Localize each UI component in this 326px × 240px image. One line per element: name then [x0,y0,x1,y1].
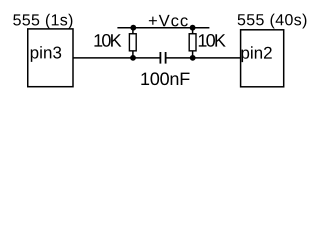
junction dot R1 top [130,25,136,31]
+Vcc rail [117,27,209,29]
capacitor C1 plate right [165,52,167,64]
junction dot R2 top [190,25,196,31]
label 555 (40s) [238,14,307,29]
value label 10K (right) [199,34,226,47]
junction dot R2 bottom [190,55,196,61]
resistor R2 body [189,34,196,51]
pin label pin3 [31,46,61,62]
wire capacitor to pin2 [166,57,240,59]
resistor R1 leads [132,28,134,34]
value label 100nF [141,72,189,85]
junction dot R1 bottom [130,55,136,61]
resistor R1 body [129,34,136,51]
IC box U1 (555 1s) [28,29,73,87]
value label 10K (left) [94,34,121,47]
label +Vcc [149,15,188,27]
pin label pin2 [242,46,272,62]
resistor R2 leads [192,28,194,34]
capacitor C1 plate left [159,52,161,64]
IC box U2 (555 40s) [241,30,284,87]
label 555 (1s) [13,14,72,29]
wire pin3 to capacitor [73,57,160,59]
